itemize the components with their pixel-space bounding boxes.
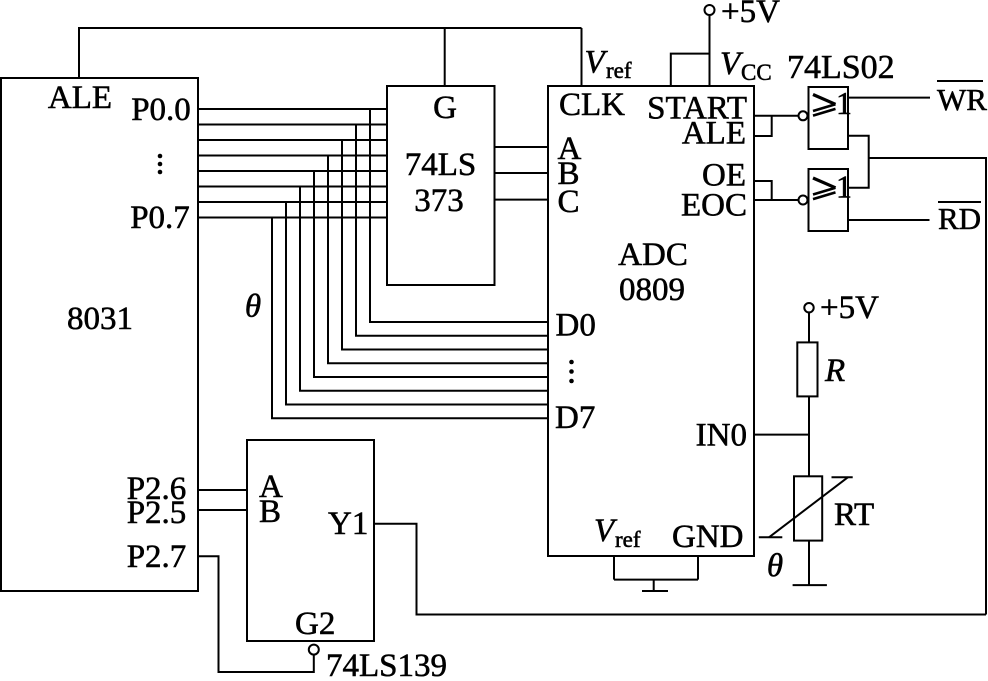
svg-text:ref: ref xyxy=(615,527,641,552)
svg-text:P0.7: P0.7 xyxy=(130,200,190,236)
gate U4B NOR 74LS02 xyxy=(799,169,853,232)
wire RT to ground xyxy=(808,541,810,586)
wire 373 to ADC B xyxy=(495,172,549,174)
resistor R xyxy=(797,342,845,396)
wire P2.5 to 139 B xyxy=(198,509,247,511)
label Vref top xyxy=(585,45,632,84)
gate U4A NOR 74LS02 xyxy=(799,85,853,149)
wire P0.0 bus line xyxy=(198,108,388,110)
svg-text:74LS: 74LS xyxy=(405,147,477,183)
svg-text:Y1: Y1 xyxy=(328,506,368,542)
wire R to RT xyxy=(808,396,810,476)
wire P0.5 bus line xyxy=(198,186,388,188)
wire drop to ADC top (Vref/CLK) xyxy=(581,28,583,86)
wire Vcc branch jog xyxy=(671,54,710,86)
wire right feedback long line xyxy=(869,158,986,615)
svg-text:P0.0: P0.0 xyxy=(131,92,191,128)
wire P0.6 bus line xyxy=(198,201,388,203)
svg-text:1: 1 xyxy=(836,85,852,121)
wire START to gate1 input xyxy=(754,115,799,117)
wire P0.3 to D3 xyxy=(328,156,548,364)
wire gate2 output to RD xyxy=(848,219,930,221)
IC U1 8031 microcontroller xyxy=(1,78,198,591)
wire gate1 lower stub xyxy=(848,136,869,188)
ground ADC stub xyxy=(653,580,655,591)
wire gate1 output to WR xyxy=(848,97,930,99)
label VCC xyxy=(720,46,772,85)
svg-text:373: 373 xyxy=(414,183,464,219)
power +5V right xyxy=(804,290,879,326)
svg-text:CLK: CLK xyxy=(559,87,625,123)
wire Y1 to gates feedback xyxy=(374,524,986,615)
svg-text:B: B xyxy=(259,494,281,530)
wire IN0 to divider node xyxy=(754,434,809,436)
wire 373 to ADC C xyxy=(495,199,549,201)
wire ALE jog to gate1 input xyxy=(754,116,772,136)
wire P0.7 to D7 xyxy=(272,218,548,419)
thermistor RT xyxy=(759,476,874,540)
wire P2.6 to 139 A xyxy=(198,489,247,491)
wire P0.6 to D6 xyxy=(286,202,548,405)
svg-text:+5V: +5V xyxy=(721,0,780,30)
wire P0.1 to D1 xyxy=(356,125,548,336)
svg-text:ALE: ALE xyxy=(682,116,746,152)
svg-text:74LS139: 74LS139 xyxy=(326,648,447,681)
svg-text:1: 1 xyxy=(836,169,852,205)
svg-text:RT: RT xyxy=(834,497,874,533)
wire P0.0 to D0 xyxy=(370,109,548,322)
svg-text:D7: D7 xyxy=(555,400,595,436)
wire drop to 74LS373 G pin xyxy=(444,28,446,86)
svg-text:IN0: IN0 xyxy=(696,418,747,454)
svg-text:ALE: ALE xyxy=(48,80,112,116)
wire P0.2 to D2 xyxy=(342,140,548,350)
svg-text:P2.7: P2.7 xyxy=(127,539,187,575)
svg-text:RD: RD xyxy=(938,201,981,236)
svg-text:G: G xyxy=(433,90,457,126)
svg-text:8031: 8031 xyxy=(67,301,133,337)
svg-text:θ: θ xyxy=(767,548,783,584)
svg-text:WR: WR xyxy=(937,82,987,117)
wire ALE-8031 vertical riser xyxy=(78,28,80,78)
IC U5 74LS139 decoder xyxy=(247,440,374,642)
wire P0.4 bus line xyxy=(198,170,388,172)
svg-text:R: R xyxy=(824,353,845,389)
power +5V top xyxy=(705,0,781,30)
svg-text:GND: GND xyxy=(672,519,744,555)
svg-text:ADC: ADC xyxy=(618,237,688,273)
IC U2 74LS373 latch xyxy=(387,86,495,285)
wire P0.3 bus line xyxy=(198,155,388,157)
wire GND pin down xyxy=(697,556,699,580)
bubble G2 input xyxy=(309,645,319,655)
wire Vref- pin down xyxy=(613,556,615,580)
label RD with overline xyxy=(938,201,981,236)
wire P0.1 bus line xyxy=(198,124,388,126)
IC U3 ADC0809 xyxy=(548,86,754,556)
svg-text:θ: θ xyxy=(245,289,261,325)
svg-text:P2.5: P2.5 xyxy=(127,495,187,531)
svg-text:G2: G2 xyxy=(295,606,335,642)
wire P0.2 bus line xyxy=(198,139,388,141)
ground RT xyxy=(793,584,827,586)
ground ADC bar xyxy=(642,590,668,592)
svg-text:74LS02: 74LS02 xyxy=(787,49,895,86)
svg-text:CC: CC xyxy=(741,60,772,85)
svg-text:EOC: EOC xyxy=(681,188,747,224)
wire ground bracket xyxy=(614,579,698,581)
wire +5V to R xyxy=(808,312,810,342)
wire P2.7 to G2 xyxy=(198,556,314,672)
wire P0.4 to D4 xyxy=(314,171,548,377)
svg-text:ref: ref xyxy=(606,58,632,83)
wire +5V to ADC Vcc xyxy=(709,15,711,86)
wire top horizontal bus ALE/CLK xyxy=(78,27,582,29)
label WR with overline xyxy=(937,81,987,117)
svg-text:D0: D0 xyxy=(556,308,596,344)
wire P0.7 bus line xyxy=(198,217,388,219)
svg-text:C: C xyxy=(558,184,580,220)
wire P0.5 to D5 xyxy=(300,187,548,391)
wire OE jog to gate2 input xyxy=(754,181,772,200)
svg-text:+5V: +5V xyxy=(820,290,879,326)
wire 373 to ADC A xyxy=(495,146,549,148)
svg-text:0809: 0809 xyxy=(619,272,685,308)
wire EOC to gate2 input xyxy=(754,199,799,201)
